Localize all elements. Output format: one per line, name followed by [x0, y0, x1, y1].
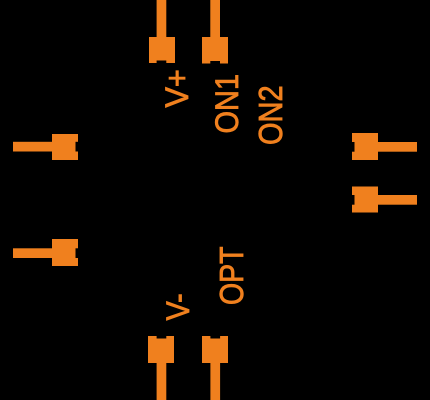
- pin V+ (top pin 1): wire, pad, notch: [149, 0, 175, 63]
- svg-text:ON1: ON1: [210, 74, 246, 134]
- svg-text:V+: V+: [158, 69, 195, 107]
- svg-text:OPT: OPT: [213, 246, 251, 305]
- pin ON1 (top pin 2): wire, pad, notch: [202, 0, 228, 64]
- left pin 1: wire, pad, notch: [13, 134, 78, 160]
- pin OPT (bottom pin 2): pad, notch, wire: [202, 336, 228, 400]
- pin V- (bottom pin 1): pad, notch, wire: [148, 336, 174, 400]
- left pin 2: wire, pad, notch: [13, 239, 78, 266]
- svg-text:V-: V-: [159, 293, 196, 320]
- right pin 2: pad, notch, wire: [352, 187, 417, 213]
- right pin 1 (ON2): pad, notch, wire: [352, 133, 417, 160]
- svg-text:ON2: ON2: [252, 85, 289, 145]
